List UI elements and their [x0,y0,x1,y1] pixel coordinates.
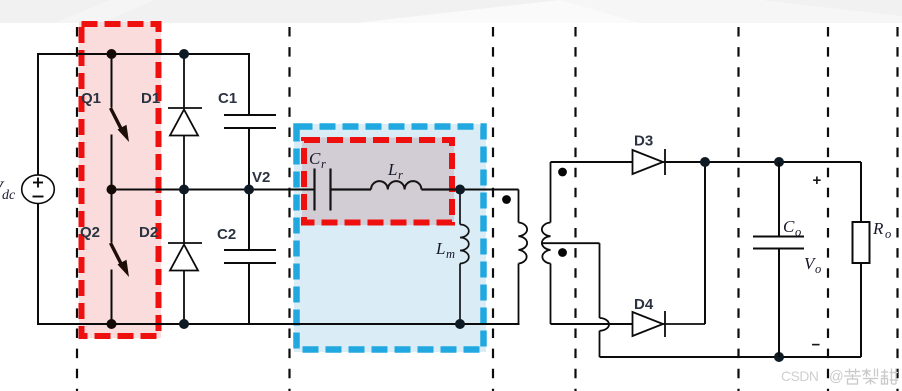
inductor Lm [460,190,469,325]
svg-text:r: r [398,168,403,182]
char li [862,370,871,372]
svg-text:C2: C2 [217,226,236,243]
wire: Vdc bottom lead [37,204,39,325]
svg-text:C: C [783,217,795,236]
svg-text:D2: D2 [139,224,158,241]
svg-text:Q1: Q1 [81,90,101,107]
diode D3 [633,149,706,175]
svg-text:m: m [446,247,455,261]
wire: mid rail (half-bridge output) [112,189,315,191]
diode D2 [168,190,202,325]
node A junction dot (tank top) [455,185,465,195]
dc source Vdc [22,175,55,204]
divider line 4 [574,27,576,391]
junction dot D2 mid [179,185,189,195]
watermark [781,369,898,386]
divider line 2 [288,27,290,391]
switch Q2 [111,190,113,325]
capacitor C1 [224,54,276,190]
highlight box: half-bridge (red dashed, pink fill) [79,22,161,338]
highlight box: resonant tank (blue dashed, light blue fill) [294,124,486,352]
wire: top rail [38,53,249,55]
junction dot D3/D4 [700,157,710,167]
divider line 7 [896,27,898,391]
wire: D4 output riser [704,162,706,324]
junction dot Co bottom [774,352,784,362]
svg-text:+: + [813,172,822,189]
wire: secondary top to D3 [551,161,633,163]
wire: Vdc top lead [37,54,39,175]
divider line 5 [737,27,739,391]
svg-text:Q2: Q2 [80,224,100,241]
capacitor Co [753,162,804,357]
svg-text:CSDN: CSDN [781,369,819,384]
svg-text:C: C [309,149,321,168]
junction dot D2 bottom [179,319,189,329]
svg-text:r: r [321,157,326,171]
transformer T1 primary [519,190,528,325]
switch Q1 [111,54,113,190]
wire Lr to node [421,188,460,190]
junction dot Co top [774,157,784,167]
transformer primary polarity dot [502,195,511,204]
svg-text:D3: D3 [634,133,653,150]
svg-text:o: o [885,227,891,241]
resistor Ro [853,162,870,357]
char ku [845,371,860,373]
transformer secondary polarity dot (top) [558,168,567,177]
wire: center tap [542,243,609,357]
wire: secondary bottom to D4 [551,323,633,325]
wire node to transformer primary [460,189,519,191]
highlight box: Cr-Lr branch (red dashed, grey fill) [302,138,454,226]
diode D1 [168,54,202,190]
divider line 1 [76,27,78,391]
svg-text:D1: D1 [141,90,160,107]
diode D4 [633,311,706,337]
svg-text:D4: D4 [634,296,654,313]
wire: bottom rail [38,323,519,325]
node B junction dot (tank bottom) [455,319,465,329]
junction dot C2 mid (node V2) [244,185,254,195]
divider line 6 [827,27,829,391]
wire: output bottom rail [600,356,862,358]
capacitor Cr [315,169,331,211]
junction dot D1 top [179,49,189,59]
wire: output top rail [665,161,861,163]
svg-text:C1: C1 [218,90,237,107]
svg-text:o: o [815,262,821,276]
capacitor C2 [224,190,276,325]
header band [0,0,902,23]
junction dot Q2 bottom [107,319,117,329]
inductor Lr [371,181,421,189]
wire Cr to Lr [331,188,372,190]
transformer T1 secondary [542,162,551,324]
svg-text:L: L [387,160,397,179]
svg-text:dc: dc [2,188,16,203]
junction dot Q2 mid [107,185,117,195]
svg-text:@: @ [829,369,844,385]
svg-text:o: o [795,225,801,239]
junction dot Q1 top [107,49,117,59]
svg-text:R: R [872,219,884,238]
svg-text:−: − [812,337,821,354]
svg-text:L: L [435,239,445,258]
char tian [884,369,886,384]
divider line 3 [492,27,494,391]
transformer secondary polarity dot (bottom) [558,248,567,257]
svg-text:V2: V2 [252,169,270,186]
